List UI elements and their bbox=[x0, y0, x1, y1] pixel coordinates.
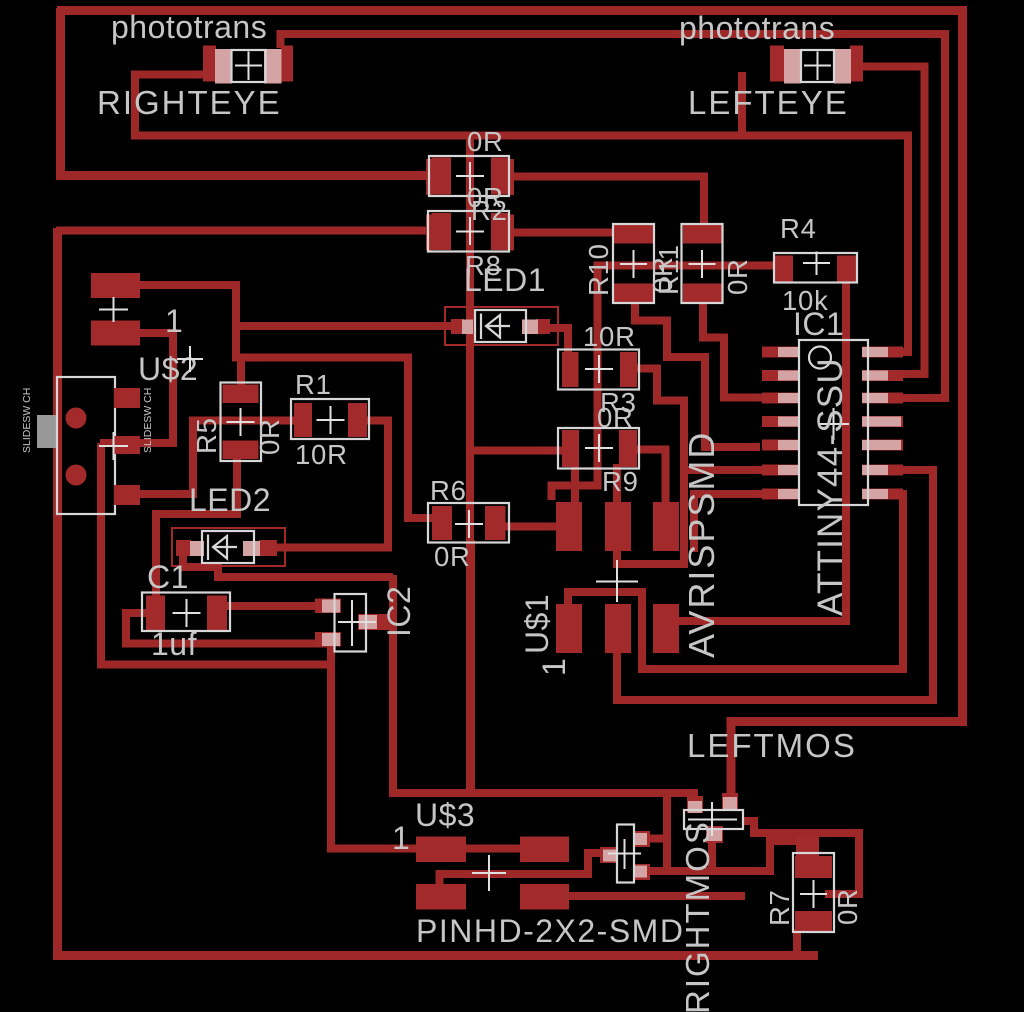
svg-text:0R: 0R bbox=[467, 126, 504, 157]
svg-text:10R: 10R bbox=[583, 321, 636, 352]
wire R11 bottom staircase to IC1 row3 bbox=[703, 301, 763, 398]
wire R7 bottom pad to bottom border bbox=[793, 929, 801, 954]
wire R10 bottom staircase to IC1 row5 bbox=[635, 300, 760, 447]
svg-text:PINHD-2X2-SMD: PINHD-2X2-SMD bbox=[416, 913, 684, 949]
svg-text:phototrans: phototrans bbox=[679, 10, 835, 46]
resistor 0R (top jumper) bbox=[426, 156, 514, 196]
svg-text:LED2: LED2 bbox=[189, 482, 271, 518]
transistor LEFTMOS bbox=[684, 793, 743, 843]
resistor R11 bbox=[682, 224, 723, 303]
resistor R1 bbox=[291, 399, 369, 439]
svg-text:C1: C1 bbox=[147, 559, 189, 595]
wire x470 branch to R9 left bbox=[470, 447, 564, 455]
svg-text:0R: 0R bbox=[722, 258, 753, 295]
svg-text:LEFTMOS: LEFTMOS bbox=[687, 727, 857, 764]
svg-text:IC2: IC2 bbox=[381, 586, 417, 637]
LED2 bbox=[172, 528, 285, 566]
transistor IC2 bbox=[315, 594, 390, 652]
IC1 ATTINY44 bbox=[762, 340, 903, 505]
svg-text:phototrans: phototrans bbox=[111, 9, 267, 45]
wire U$1 bottom middle pad to IC1 row6 right bbox=[617, 466, 933, 700]
svg-text:R2: R2 bbox=[471, 195, 508, 226]
wire R9 left pad stub into U$1 pad1 bbox=[571, 465, 579, 504]
svg-text:R4: R4 bbox=[780, 213, 817, 244]
svg-text:SLIDESW CH: SLIDESW CH bbox=[142, 388, 154, 453]
svg-text:R7: R7 bbox=[764, 889, 795, 926]
svg-text:1uf: 1uf bbox=[151, 626, 197, 662]
wire R5 bottom staircase to C1 left pad bbox=[156, 456, 237, 598]
svg-text:R10: R10 bbox=[583, 243, 614, 296]
wire branch to R5 top bbox=[237, 358, 245, 389]
wire lefteye left pad drop bbox=[738, 72, 746, 132]
svg-text:0R: 0R bbox=[832, 888, 863, 925]
wire ring4 second border left+bottom bbox=[58, 228, 819, 956]
phototrans LEFTEYE bbox=[770, 46, 863, 84]
wire y871 to R7 top pad bbox=[667, 841, 800, 871]
wire U$3 pin1 to pin2 bbox=[462, 845, 569, 853]
resistor R3 (10R) bbox=[558, 350, 639, 390]
resistor R6 bbox=[428, 503, 509, 543]
header U$3 PINHD-2X2 pads bbox=[416, 837, 569, 910]
svg-text:IC1: IC1 bbox=[793, 306, 844, 342]
svg-text:RIGHTMOS: RIGHTMOS bbox=[679, 820, 716, 1012]
svg-text:10R: 10R bbox=[295, 439, 348, 470]
wire U$2 top pad to LED1 and y358 rail bbox=[138, 285, 453, 326]
wire R6 bottom vertical to y793 rail bbox=[467, 540, 475, 793]
LED1 bbox=[445, 307, 558, 345]
wire R9 right to U$1 pad3 bbox=[635, 450, 666, 505]
svg-text:R9: R9 bbox=[602, 466, 639, 497]
resistor R2 bbox=[426, 211, 514, 252]
wire 0R right to R11 top bbox=[508, 177, 704, 228]
wire U$3 pin3 stub and y874 to RIGHTMOS left pad bbox=[440, 853, 608, 886]
wire long horizontal vcc net y136 bbox=[131, 136, 908, 353]
svg-text:SLIDESW CH: SLIDESW CH bbox=[21, 388, 33, 453]
wire IC1 row6 right horizontal bbox=[888, 466, 933, 474]
capacitor C1 bbox=[142, 593, 230, 632]
wire LEFTMOS right side to R7 region bbox=[742, 821, 859, 894]
wire gate branch x667 down to y871 bbox=[642, 793, 667, 871]
resistor R4 bbox=[774, 252, 857, 283]
svg-text:R6: R6 bbox=[430, 475, 467, 506]
wire IC2 right pad join bbox=[376, 618, 393, 626]
wire left border upper with branch to 0R resistor bbox=[61, 8, 433, 176]
svg-text:0R: 0R bbox=[254, 418, 285, 455]
wire IC1 row7 left feed bbox=[694, 494, 763, 552]
slide switch bbox=[37, 377, 140, 514]
node U$2 origin cross bbox=[177, 346, 203, 372]
wire LED2 left staircase to x393 vertical bbox=[183, 553, 393, 577]
resistor R9 bbox=[558, 428, 639, 469]
wire gnd vertical x323 down to U$3 pin1 bbox=[331, 644, 420, 849]
wire IC1 row6 left feed bbox=[684, 466, 763, 474]
wire R2 right to R10 top bbox=[508, 229, 616, 237]
svg-text:ATTINY44-SSU: ATTINY44-SSU bbox=[811, 357, 850, 616]
svg-text:R1: R1 bbox=[295, 369, 332, 400]
svg-text:U$1: U$1 bbox=[519, 594, 555, 654]
svg-text:1: 1 bbox=[536, 658, 572, 676]
wire R1 right down to LED2 right pad bbox=[275, 421, 388, 548]
svg-text:U$3: U$3 bbox=[415, 797, 475, 833]
wire gnd vertical x101 down from switch bbox=[101, 443, 331, 665]
wire righteye left pad feed bbox=[135, 75, 204, 136]
resistor R10 bbox=[613, 224, 654, 303]
wire ring2: righteye collector to IC1 pin row3 bbox=[281, 34, 946, 398]
resistor R7 bbox=[793, 836, 834, 932]
transistor RIGHTMOS bbox=[600, 825, 650, 883]
wire C1 right pad to IC2 upper-left pad bbox=[225, 602, 323, 610]
wire R3 right staircase down to U$1 pad2 bbox=[617, 369, 684, 565]
svg-text:LED1: LED1 bbox=[464, 262, 546, 298]
wire ring3: lefteye right pad to IC1 pin row2 bbox=[861, 67, 925, 375]
svg-text:0R: 0R bbox=[647, 256, 678, 293]
wire R6 right pad to U$1 pad1 bbox=[503, 523, 560, 531]
phototrans RIGHTEYE bbox=[203, 46, 293, 84]
wire U$2 bottom pad to switch middle pad bbox=[100, 333, 173, 443]
wire vertical x470 through 0R,R2,LED1,R6 bbox=[466, 136, 474, 794]
svg-text:AVRISPSMD: AVRISPSMD bbox=[681, 431, 722, 658]
wire reset net: y265 horizontal to R4 left bbox=[598, 262, 781, 270]
wire U$3 pin4 right along y896 bbox=[567, 892, 745, 900]
battery pads U$2 bbox=[91, 273, 140, 346]
wire reset net vertical x597 down to R9 left area bbox=[552, 262, 598, 501]
wire y358 rail to R6 left bbox=[236, 322, 434, 518]
svg-text:R5: R5 bbox=[191, 417, 222, 454]
wire board border outer: top, right, lower-right jog bbox=[57, 11, 963, 801]
wire U$1 pad2 top stub bbox=[613, 464, 621, 504]
svg-text:1: 1 bbox=[392, 820, 410, 856]
wire LEFTMOS bottom pad stub bbox=[708, 841, 716, 871]
svg-text:1: 1 bbox=[165, 303, 183, 339]
svg-text:LEFTEYE: LEFTEYE bbox=[688, 84, 849, 121]
resistor R5 bbox=[221, 383, 262, 462]
wire U$1 bottom left pad loop to y669 to IC1 row7 right bbox=[568, 494, 903, 669]
header U$1 AVRISP pads bbox=[556, 502, 679, 653]
wire switch bottom pad under R5 to R1 left bbox=[137, 421, 296, 495]
wire x393 vertical down to y793 rail bbox=[389, 575, 397, 793]
wire LED1 right pad to R3 left bbox=[548, 328, 568, 354]
svg-text:0R: 0R bbox=[434, 541, 471, 572]
wire R2 left feed from ring4 bbox=[56, 227, 430, 235]
wire C1 left pad loop to IC2 lower-left pad bbox=[126, 613, 331, 644]
wire branch to RIGHTMOS top pad bbox=[642, 835, 667, 843]
svg-text:RIGHTEYE: RIGHTEYE bbox=[97, 84, 282, 121]
wire y793 rail to LEFTMOS top-left pad bbox=[389, 793, 694, 806]
wire U$1 bottom right pad to R4 right via x846 under IC1 bbox=[677, 280, 846, 621]
